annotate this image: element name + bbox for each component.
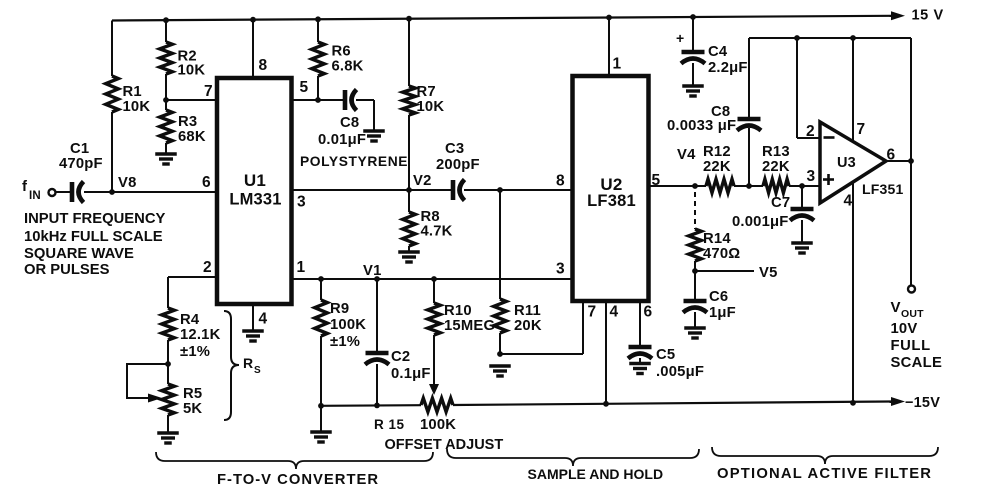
C3 value label	[436, 141, 480, 173]
svg-text:5K: 5K	[183, 401, 202, 417]
svg-text:V1: V1	[363, 263, 382, 279]
svg-text:4: 4	[844, 193, 853, 210]
svg-text:20K: 20K	[514, 318, 542, 334]
input description text	[24, 211, 166, 278]
R15 value label	[374, 417, 456, 433]
svg-text:C2: C2	[391, 349, 410, 365]
wire U2 pin 7 routing	[500, 301, 583, 354]
svg-text:8: 8	[259, 57, 268, 74]
R3 value label	[178, 114, 206, 145]
terminal Vout	[908, 286, 915, 293]
wire feedback to U3 pin 7	[852, 38, 854, 143]
node junction top rail at U1 pin 8	[250, 17, 256, 23]
capacitor C6	[683, 301, 707, 313]
svg-text:C6: C6	[709, 289, 728, 305]
ground below C5	[629, 364, 651, 374]
node junction R6 C8	[315, 97, 321, 103]
U1 pin 4 label	[259, 311, 268, 328]
svg-text:22K: 22K	[703, 159, 731, 175]
node junction top rail at U2 pin 1	[606, 15, 612, 21]
svg-text:V2: V2	[413, 173, 432, 189]
U3 pin 2 label	[806, 123, 815, 140]
svg-text:INPUT FREQUENCY: INPUT FREQUENCY	[24, 211, 166, 227]
terminal f_IN input	[49, 189, 56, 196]
R13 value label	[762, 144, 790, 175]
svg-text:6: 6	[202, 174, 211, 191]
svg-text:R 15: R 15	[374, 417, 405, 432]
wire output to Vout terminal	[910, 161, 912, 285]
node label V2	[413, 173, 432, 189]
label Vout	[891, 299, 943, 371]
ground below R11	[489, 366, 511, 376]
brace R_S	[224, 311, 239, 420]
svg-text:1: 1	[297, 259, 306, 276]
U1 pin 5 label	[300, 79, 309, 96]
ground below C8	[363, 131, 385, 141]
node label V5	[759, 265, 778, 281]
R14 value label	[703, 231, 740, 262]
svg-text:470pF: 470pF	[59, 156, 103, 172]
svg-text:6: 6	[887, 147, 896, 164]
node label V8	[118, 175, 137, 191]
U2 pin 3 label	[556, 261, 565, 278]
svg-text:5: 5	[300, 79, 309, 96]
svg-text:+: +	[676, 30, 684, 46]
node junction R2 R3 pin7	[163, 97, 169, 103]
C8 value label	[300, 115, 408, 169]
brace F-to-V converter section	[156, 452, 433, 469]
node V8 junction	[109, 189, 115, 195]
wire R13 to U3 pin 3	[789, 185, 820, 187]
resistor R13	[763, 179, 789, 193]
wire C7 to ground	[801, 220, 803, 242]
svg-text:POLYSTYRENE: POLYSTYRENE	[300, 154, 408, 169]
svg-text:R11: R11	[514, 303, 541, 319]
wire C3 to U2 pin 8	[464, 189, 572, 191]
label F-TO-V CONVERTER	[217, 472, 379, 488]
svg-text:FULL: FULL	[891, 338, 931, 354]
wire C8 to R12 R13 junction	[748, 128, 750, 186]
ground below R8	[398, 252, 420, 262]
wire V5 stub	[695, 270, 754, 272]
svg-text:S: S	[254, 365, 261, 376]
svg-text:R1: R1	[123, 84, 142, 100]
svg-text:LM331: LM331	[229, 191, 281, 209]
node junction output	[908, 158, 914, 164]
R8 value label	[421, 209, 453, 240]
C8 filter value label	[667, 104, 736, 134]
svg-text:f: f	[22, 178, 28, 195]
U1 pin 6 label	[202, 174, 211, 191]
svg-text:SCALE: SCALE	[891, 355, 943, 371]
svg-text:7: 7	[588, 304, 597, 321]
svg-text:R12: R12	[703, 144, 731, 160]
svg-text:3: 3	[297, 194, 306, 211]
svg-text:6: 6	[644, 304, 653, 321]
C6 value label	[709, 289, 736, 321]
U2 pin 7 label	[588, 304, 597, 321]
svg-text:LF351: LF351	[862, 181, 903, 197]
wire feedback to output	[910, 38, 912, 161]
U2 pin 1 label	[613, 56, 622, 73]
wire U1 pin 1 to U2 pin 3 (node V1)	[293, 278, 572, 280]
resistor R10	[428, 279, 441, 384]
IC U2 LF381	[573, 76, 649, 301]
capacitor C3	[453, 180, 465, 201]
net label -15V	[905, 395, 940, 411]
svg-text:C5: C5	[656, 347, 675, 363]
node junction top rail at R2	[163, 17, 169, 23]
wire U1 pin 2	[168, 277, 217, 308]
node junction V2 to R11 branch	[497, 187, 503, 193]
capacitor C8 0.0033uF	[737, 119, 761, 131]
U3 pin 3 label	[807, 168, 816, 185]
wire U3 pin 4	[852, 182, 854, 403]
node junction R10	[431, 276, 437, 282]
node V4 junction	[692, 183, 698, 189]
svg-text:R14: R14	[703, 231, 731, 247]
capacitor C5	[628, 347, 652, 359]
brace sample and hold section	[447, 449, 699, 466]
svg-text:10K: 10K	[123, 99, 151, 115]
wire R5 wiper feedback	[127, 364, 168, 403]
R7 value label	[417, 84, 445, 115]
resistor R6	[312, 19, 325, 100]
C1 value label	[59, 141, 103, 172]
U2 pin 6 label	[644, 304, 653, 321]
capacitor C8 polystyrene	[345, 90, 357, 111]
svg-text:2: 2	[203, 259, 212, 276]
brace optional active filter section	[712, 447, 938, 464]
U1 pin 7 label	[204, 83, 213, 100]
U1 pin 2 label	[203, 259, 212, 276]
node junction top rail at C4	[690, 14, 696, 20]
wire R12 to R13	[734, 185, 763, 187]
svg-text:3: 3	[556, 261, 565, 278]
U1 pin 3 label	[297, 194, 306, 211]
svg-text:IN: IN	[29, 190, 41, 202]
svg-text:R13: R13	[762, 144, 790, 160]
resistor R1	[106, 21, 119, 193]
svg-text:200pF: 200pF	[436, 157, 480, 173]
U1 pin 1 label	[297, 259, 306, 276]
node junction top rail at R7	[406, 16, 412, 22]
svg-text:R6: R6	[332, 44, 351, 60]
svg-text:0.001μF: 0.001μF	[732, 214, 789, 230]
wire feedback to U3 pin 2	[797, 38, 820, 138]
svg-text:OPTIONAL ACTIVE FILTER: OPTIONAL ACTIVE FILTER	[717, 466, 932, 482]
resistor R11	[494, 299, 507, 354]
node V5 junction	[692, 268, 698, 274]
svg-text:V5: V5	[759, 265, 778, 281]
node junction R4 R5 wiper	[165, 361, 171, 367]
svg-text:C4: C4	[708, 44, 728, 60]
svg-text:4: 4	[610, 304, 619, 321]
wire -15V rail left	[321, 404, 421, 407]
capacitor C7	[790, 209, 814, 221]
R1 value label	[123, 84, 151, 115]
svg-text:SQUARE WAVE: SQUARE WAVE	[24, 246, 134, 262]
svg-text:SAMPLE AND HOLD: SAMPLE AND HOLD	[528, 466, 664, 482]
wire C2 to rail	[376, 364, 378, 405]
C2 value label	[391, 349, 431, 382]
svg-text:1: 1	[613, 56, 622, 73]
svg-text:6.8K: 6.8K	[332, 59, 364, 75]
ground below C6	[684, 328, 706, 338]
R6 value label	[332, 44, 364, 75]
R11 value label	[514, 303, 542, 334]
svg-text:C7: C7	[771, 195, 790, 211]
R2 value label	[178, 49, 206, 79]
svg-text:10kHz FULL SCALE: 10kHz FULL SCALE	[24, 229, 163, 245]
resistor R8	[403, 190, 416, 251]
svg-text:12.1K: 12.1K	[180, 327, 221, 343]
svg-text:1μF: 1μF	[709, 305, 736, 321]
C4 value label	[708, 44, 748, 76]
svg-text:7: 7	[204, 83, 213, 100]
resistor R3	[160, 100, 173, 153]
svg-text:10K: 10K	[178, 63, 206, 79]
wire V1 to C2	[376, 279, 378, 351]
wire C8 to ground	[356, 100, 374, 130]
svg-text:R5: R5	[183, 386, 202, 402]
svg-text:R10: R10	[444, 303, 472, 319]
svg-text:0.0033 μF: 0.0033 μF	[667, 118, 736, 134]
U1 pin 8 label	[259, 57, 268, 74]
ground below R3	[155, 154, 177, 164]
node junction C7	[799, 183, 805, 189]
node junction C2 rail	[374, 403, 380, 409]
U2 pin 4 wire	[605, 301, 607, 404]
net label 15V	[912, 8, 944, 24]
wire C6 to ground	[694, 312, 696, 327]
wire V2 branch down to R11	[499, 190, 501, 299]
svg-text:OFFSET ADJUST: OFFSET ADJUST	[385, 437, 504, 453]
wire U1 pin 3 to C3 (node V2)	[293, 189, 451, 191]
U3 pin 4 label	[844, 193, 853, 210]
svg-text:15MEG: 15MEG	[444, 318, 495, 334]
U2 pin 4 label	[610, 304, 619, 321]
node junction U2 pin4 rail	[603, 401, 609, 407]
resistor R4	[162, 308, 175, 364]
label OFFSET ADJUST	[385, 437, 504, 453]
label f_IN	[22, 178, 41, 202]
node junction R7 V2	[406, 187, 412, 193]
wire C5 to ground	[639, 358, 641, 364]
ground below R5	[157, 433, 179, 443]
wire U2 pin 5 to R12	[648, 185, 706, 187]
svg-text:U3: U3	[837, 155, 856, 171]
svg-text:10K: 10K	[417, 99, 445, 115]
node junction feedback pin2	[794, 35, 800, 41]
svg-text:R4: R4	[180, 312, 200, 328]
svg-text:V4: V4	[677, 147, 696, 163]
svg-text:3: 3	[807, 168, 816, 185]
U3 label LF351	[862, 181, 903, 197]
wire V4 to R14 dashed	[694, 192, 696, 229]
svg-text:4.7K: 4.7K	[421, 224, 453, 240]
svg-text:R3: R3	[178, 114, 197, 130]
svg-text:R7: R7	[417, 84, 436, 100]
capacitor C4 electrolytic	[676, 30, 705, 64]
svg-text:470Ω: 470Ω	[703, 246, 740, 262]
wire C4 to ground	[692, 63, 694, 85]
node junction feedback pin7	[850, 35, 856, 41]
resistor R5 potentiometer	[162, 364, 175, 432]
svg-text:68K: 68K	[178, 129, 206, 145]
node label V4	[677, 147, 696, 163]
U2 pin 8 label	[556, 173, 565, 190]
U1 pin 4 wire	[252, 304, 254, 330]
svg-text:7: 7	[857, 121, 866, 138]
svg-text:C3: C3	[445, 141, 464, 157]
svg-text:±1%: ±1%	[180, 344, 210, 360]
wire U3 pin3 node to C7	[801, 186, 803, 207]
svg-text:22K: 22K	[762, 159, 790, 175]
svg-text:10V: 10V	[891, 321, 918, 337]
svg-text:4: 4	[259, 311, 268, 328]
U2 pin 5 label	[652, 172, 661, 189]
R12 value label	[703, 144, 731, 175]
svg-text:OUT: OUT	[901, 308, 924, 320]
label OPTIONAL ACTIVE FILTER	[717, 466, 932, 482]
svg-text:F-TO-V CONVERTER: F-TO-V CONVERTER	[217, 472, 379, 488]
U2 pin 1 wire	[608, 18, 610, 77]
wire U1 pin 7	[166, 99, 217, 101]
svg-text:15 V: 15 V	[912, 8, 944, 24]
capacitor C1	[72, 182, 84, 203]
svg-text:100K: 100K	[330, 317, 366, 333]
node label V1	[363, 263, 382, 279]
C5 value label	[656, 347, 704, 380]
U2 pin 6 wire	[639, 301, 641, 345]
svg-text:OR PULSES: OR PULSES	[24, 262, 110, 278]
resistor R14	[689, 229, 702, 271]
svg-text:8: 8	[556, 173, 565, 190]
svg-text:−15V: −15V	[905, 395, 940, 411]
label R_S	[243, 355, 261, 376]
node junction R9 rail	[318, 403, 324, 409]
U3 pin 6 label	[887, 147, 896, 164]
svg-text:2.2μF: 2.2μF	[708, 60, 748, 76]
wire f_IN to C1	[56, 191, 71, 193]
svg-text:±1%: ±1%	[330, 334, 360, 350]
wire U3 output	[886, 160, 911, 162]
C7 value label	[732, 195, 790, 230]
svg-text:0.01μF: 0.01μF	[318, 132, 366, 148]
U3 pin 7 label	[857, 121, 866, 138]
label SAMPLE AND HOLD	[528, 466, 664, 482]
U1 pin 8 wire	[252, 20, 254, 78]
wire U3 feedback top	[749, 37, 911, 39]
resistor R7	[403, 19, 416, 190]
R10 value label	[444, 303, 495, 334]
resistor R12	[706, 179, 734, 193]
ground below C7	[791, 243, 813, 253]
wire rail to C4	[692, 17, 694, 52]
node junction R9	[318, 276, 324, 282]
svg-text:V: V	[891, 299, 901, 316]
R9 value label	[330, 301, 366, 350]
wire U1 pin 5 to C8	[293, 99, 343, 101]
svg-text:LF381: LF381	[587, 192, 636, 210]
wire C1 to U1 pin 6	[84, 191, 215, 193]
svg-text:2: 2	[806, 123, 815, 140]
capacitor C2	[365, 353, 389, 365]
R10 wiper arrow to R15	[429, 384, 439, 395]
svg-text:U1: U1	[244, 171, 266, 190]
svg-text:V8: V8	[118, 175, 137, 191]
resistor R2	[160, 20, 173, 100]
ground below C4	[682, 86, 704, 96]
ground below R9	[310, 432, 332, 442]
svg-text:R: R	[243, 355, 253, 371]
node junction R11 U2 pin7	[497, 351, 503, 357]
node junction C8 feedback	[746, 183, 752, 189]
svg-text:C1: C1	[70, 141, 89, 157]
wire rail end to ground	[320, 406, 322, 431]
svg-text:R9: R9	[330, 301, 349, 317]
IC U1 LM331	[217, 78, 292, 304]
wire +15V top rail	[112, 11, 905, 20]
wire -15V rail right	[453, 397, 905, 406]
wire V5 to C6	[694, 271, 696, 299]
op-amp U3 LF351	[820, 122, 886, 203]
resistor R9	[315, 279, 328, 406]
node junction U3 pin4 rail	[850, 400, 856, 406]
ground below U1 pin 4	[242, 331, 264, 341]
R5 value label	[183, 386, 202, 417]
svg-text:C8: C8	[340, 115, 359, 131]
R4 value label	[180, 312, 221, 360]
svg-text:0.1μF: 0.1μF	[391, 366, 431, 382]
node V1 junction	[374, 276, 380, 282]
potentiometer R15	[421, 398, 453, 412]
svg-text:100K: 100K	[420, 417, 456, 433]
wire feedback to C8	[748, 38, 750, 117]
node junction top rail at R6	[315, 16, 321, 22]
svg-text:.005μF: .005μF	[656, 364, 704, 380]
